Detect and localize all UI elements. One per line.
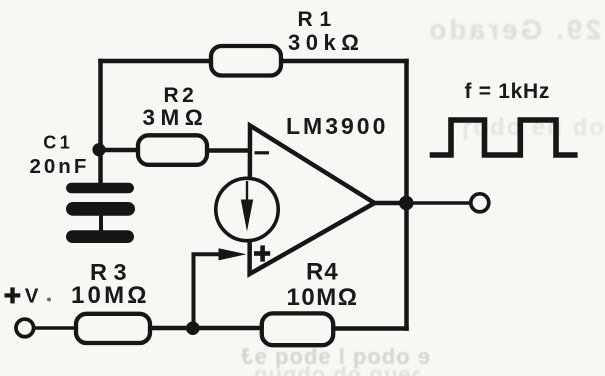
svg-text:C1: C1 <box>43 133 73 153</box>
wire op-amp output to junction and terminal <box>373 201 406 206</box>
wire top right from R1 to right rail <box>281 59 409 64</box>
svg-text:30kΩ: 30kΩ <box>288 30 364 55</box>
wire top from left corner to R1 <box>98 59 212 61</box>
current source circle inside op-amp <box>216 178 278 240</box>
svg-text:29. Gerado: 29. Gerado <box>426 14 601 45</box>
wire bottom from R3 to R4 <box>150 326 264 331</box>
wire bottom from R4 to right rail <box>333 326 409 331</box>
resistor R4 <box>262 313 333 345</box>
label +V <box>5 293 21 297</box>
wire bottom from +V terminal to R3 <box>35 326 78 330</box>
svg-text:10MΩ: 10MΩ <box>287 284 359 311</box>
svg-text:f = 1kHz: f = 1kHz <box>465 80 551 103</box>
svg-text:LM3900: LM3900 <box>286 113 388 139</box>
svg-text:3MΩ: 3MΩ <box>143 105 209 130</box>
bleed-through text bottom second line <box>253 362 420 376</box>
+V input terminal <box>16 319 34 337</box>
bleed-through text bottom center <box>240 344 430 369</box>
svg-text:R 1: R 1 <box>298 8 332 31</box>
wire R2 to inverting input <box>206 148 248 153</box>
capacitor C1 plate 2 <box>66 202 135 216</box>
wire junction to output terminal <box>406 201 471 204</box>
svg-text:V: V <box>25 285 39 308</box>
bleed-through text top right <box>426 14 601 45</box>
svg-text:R2: R2 <box>164 84 198 107</box>
current source arrow <box>246 181 248 201</box>
bottom junction dot <box>186 321 200 335</box>
square wave waveform <box>430 120 578 155</box>
svg-text:ɿɘup ob obɒup: ɿɘup ob obɒup <box>253 362 420 376</box>
output terminal <box>471 194 489 212</box>
svg-text:20nF: 20nF <box>30 155 90 178</box>
op-amp inverting input minus sign <box>255 151 270 154</box>
wire feedback from bottom junction up to non-inverting input <box>194 254 222 330</box>
wire left vertical from top corner down to C1 <box>98 59 103 184</box>
capacitor C1 plate 1 <box>66 183 134 193</box>
op-amp U1 triangle <box>250 126 375 275</box>
svg-text:R4: R4 <box>306 259 339 286</box>
node A junction dot <box>92 143 105 156</box>
output node junction dot <box>399 196 414 211</box>
bleed-through text mid right <box>460 114 604 141</box>
op-amp non-inverting input plus sign <box>254 251 270 256</box>
resistor R3 <box>76 314 150 343</box>
resistor R2 <box>138 135 207 165</box>
wire node A to R2 <box>97 148 139 153</box>
resistor R1 <box>211 46 281 76</box>
capacitor C1 stub between plates <box>99 214 103 232</box>
svg-text:10MΩ: 10MΩ <box>71 282 150 309</box>
period speck after +V <box>47 298 51 302</box>
svg-text:R 3: R 3 <box>90 259 127 285</box>
arrowhead into non-inverting input <box>219 248 247 260</box>
capacitor C1 plate 3 <box>66 230 134 243</box>
wire right vertical rail <box>404 59 409 331</box>
